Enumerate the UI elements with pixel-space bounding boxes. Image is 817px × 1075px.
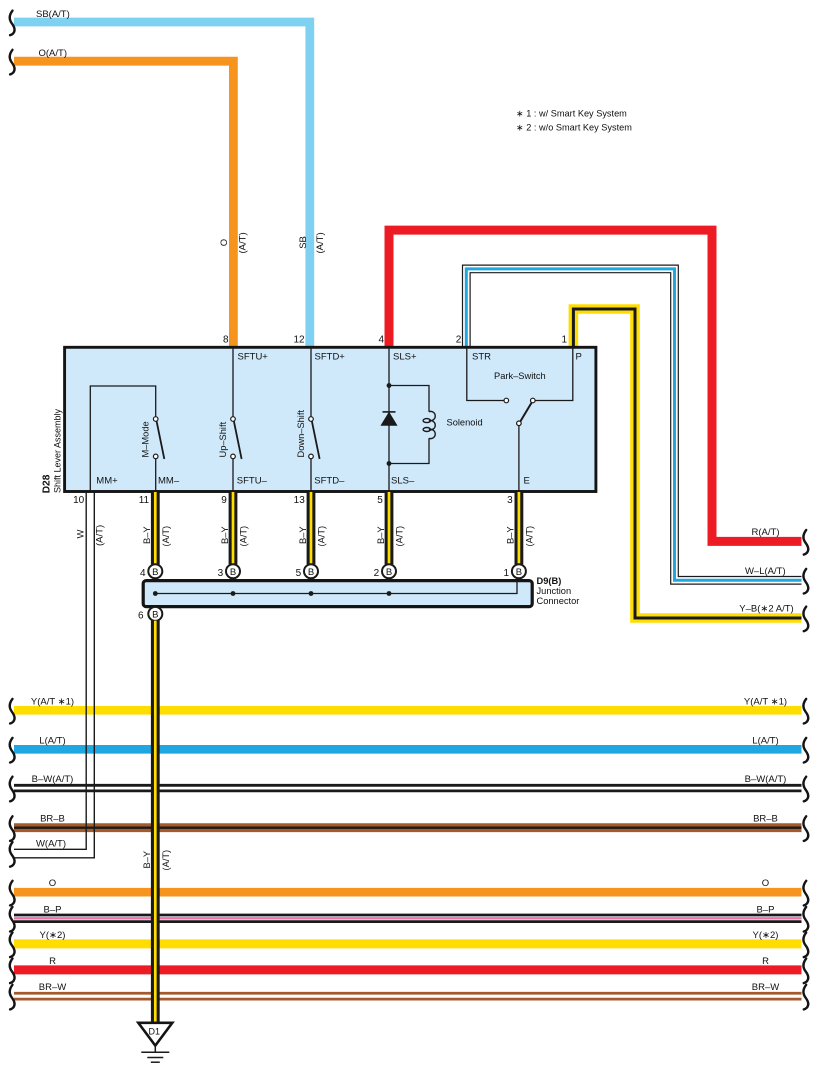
svg-text:D1: D1 [149,1027,161,1037]
junction terminal circled B 4 [148,564,162,578]
svg-text:O: O [762,878,769,889]
wire O(A/T) orange from left edge to pin 8 SFTU+ [14,61,233,346]
break symbol left of R [10,959,15,984]
svg-text:SFTD–: SFTD– [314,476,345,487]
svg-text:L(A/T): L(A/T) [752,735,778,746]
wire B-Y pin 5 outline [385,492,394,564]
break symbol left of Y(A/T *1) [10,699,15,724]
svg-text:3: 3 [218,568,224,579]
svg-text:W–L(A/T): W–L(A/T) [745,566,786,577]
switch Up-Shift arm [234,421,242,459]
break symbol left of Y(*2) [10,933,15,958]
junction terminal circled B 6 [148,607,162,621]
wire Y(*2) yellow (#ffdd00 9.0) [14,939,802,948]
solenoid coil L arc 2 [429,421,435,430]
wire P internal drop [535,347,573,401]
svg-text:∗ 1 : w/ Smart Key System: ∗ 1 : w/ Smart Key System [516,109,627,119]
svg-text:(A/T): (A/T) [161,850,171,871]
wire B-W(A/T) black-white (#ffffff 2.8) [14,787,802,790]
svg-text:B–Y: B–Y [142,851,152,869]
wire B-W(A/T) black-white (#1a1a1a 8.4) [14,784,802,792]
junction terminal circled B 5 [304,564,318,578]
svg-text:B: B [230,567,236,578]
svg-text:8: 8 [223,334,229,345]
ground bar 3 [151,1061,160,1063]
wire O orange (#f7941e 8.6) [14,888,802,897]
wire B-P black-pink (#f06eae 2.4) [14,917,802,919]
svg-text:SB: SB [298,236,309,249]
svg-text:B–Y: B–Y [376,526,386,544]
wire B-Y pin 5 yellow stripe [388,492,391,564]
svg-text:Solenoid: Solenoid [447,418,483,428]
break symbol right of Y(*2) [803,933,808,958]
wire BR-W brown-white (#a55a2c 8.6) [14,992,802,1001]
wire W-L(A/T) white-blue from pin 2 STR around to right edge (outline) [466,269,801,580]
wire B-Y pin 9 yellow stripe [232,492,235,564]
svg-text:6: 6 [138,610,144,621]
junction connector D9(B) box [143,581,532,607]
svg-text:B–Y: B–Y [142,526,152,544]
switch Up-Shift top contact [231,417,236,422]
svg-text:Park–Switch: Park–Switch [494,371,546,381]
junction bus dot at x=311.0 [309,591,314,596]
svg-text:Down–Shift: Down–Shift [296,410,306,458]
svg-text:2: 2 [374,568,380,579]
svg-text:R(A/T): R(A/T) [752,527,780,538]
shift lever assembly box D28 [65,347,596,491]
break symbol left end of W wire [10,842,15,867]
wire W from pin 10 outer line [14,492,86,849]
switch Park-Switch arm [520,403,532,422]
break symbol right end of W-L wire [803,569,808,594]
svg-text:(A/T): (A/T) [525,526,535,547]
break symbol right of O [803,881,808,906]
svg-text:13: 13 [294,495,306,506]
break symbol left of BR-W [10,985,15,1010]
solenoid coil L arc 1 [429,411,435,420]
svg-text:B–Y: B–Y [298,526,308,544]
break symbol left end of SB wire [10,11,15,36]
ground bar 1 [141,1051,169,1053]
wire W-L blue stripe [466,269,801,580]
switch M-Mode bottom contact [153,454,158,459]
wire B-Y pin 11 outline [151,492,160,564]
ground bar 2 [147,1057,163,1059]
wire W-L white core [466,269,801,580]
svg-text:1: 1 [504,568,510,579]
wire B-Y pin 9 outline [229,492,238,564]
node junction dot lower SLS [387,461,392,466]
svg-text:MM–: MM– [158,476,180,487]
wire Y-B(*2 A/T) yellow-black from pin 1 P around to right edge [573,309,801,618]
wire R red (#ed1c24 9.0) [14,965,802,974]
svg-text:Connector: Connector [537,596,580,606]
wire BR-W brown-white (#ffffff 3.2) [14,995,802,998]
svg-text:Y(A/T ∗1): Y(A/T ∗1) [744,696,787,707]
wire B-Y pin 11 yellow stripe [154,492,157,564]
junction terminal circled B 2 [382,564,396,578]
svg-text:SLS+: SLS+ [393,352,417,363]
break symbol right of B-W(A/T) [803,777,808,802]
switch Down-Shift bottom contact [309,454,314,459]
svg-text:D9(B): D9(B) [537,576,562,586]
svg-text:B–W(A/T): B–W(A/T) [745,774,787,785]
break symbol left of B-W(A/T) [10,777,15,802]
svg-text:B: B [152,567,158,578]
wire MM- below switch [155,459,157,492]
svg-text:5: 5 [377,495,383,506]
wire Y-B black stripe [573,309,801,618]
junction connector bus line [155,581,517,594]
svg-text:1: 1 [561,334,567,345]
svg-text:4: 4 [378,334,384,345]
wire SFTD- below switch [310,459,312,492]
svg-text:B: B [386,567,392,578]
svg-text:5: 5 [296,568,302,579]
junction bus dot at x=155.3 [153,591,158,596]
svg-text:D28: D28 [41,474,52,493]
svg-text:Y–B(∗2 A/T): Y–B(∗2 A/T) [739,604,793,615]
wire B-Y ground run yellow stripe [154,621,157,1022]
wire B-Y pin 13 outline [307,492,316,564]
wire B-Y pin 3 yellow stripe [518,492,521,564]
wire L(A/T) blue (#1ea7e1 8.6) [14,745,802,754]
break symbol left of B-P [10,907,15,932]
break symbol left of L(A/T) [10,738,15,763]
break symbol right of BR-W [803,985,808,1010]
svg-text:B–Y: B–Y [506,526,516,544]
svg-text:9: 9 [221,495,227,506]
svg-text:B–Y: B–Y [220,526,230,544]
switch Down-Shift top contact [309,417,314,422]
wire BR-B brown-black (#1a1a1a 2.4) [14,827,802,829]
solenoid coil L arc 3 [429,429,435,438]
svg-text:(A/T): (A/T) [161,526,171,547]
break symbol left of BR-B [10,816,15,841]
ground symbol D1 triangle [138,1023,172,1046]
svg-text:L(A/T): L(A/T) [39,735,65,746]
svg-text:∗ 2 : w/o Smart Key System: ∗ 2 : w/o Smart Key System [516,123,632,133]
wire W from pin 10 inner line [14,492,94,858]
svg-text:O(A/T): O(A/T) [39,48,68,59]
break symbol right of BR-B [803,816,808,841]
svg-text:(A/T): (A/T) [94,525,105,546]
svg-text:SLS–: SLS– [391,476,415,487]
svg-text:Junction: Junction [537,586,572,596]
wire B-P black-pink (#1a1a1a 9.4) [14,914,802,923]
junction terminal circled B 1 [512,564,526,578]
svg-text:BR–W: BR–W [752,982,779,993]
break symbol left end of O wire [10,50,15,75]
wire SB(A/T) sky-blue from left edge to pin 12 SFTD+ [14,22,310,346]
break symbol right of B-P [803,907,808,932]
svg-text:B–P: B–P [44,904,62,915]
wire MM+ internal riser and top rail [90,386,155,490]
diode D anode triangle [381,413,396,426]
junction bus dot at x=233.0 [231,591,236,596]
svg-text:Shift Lever Assembly: Shift Lever Assembly [52,408,62,493]
wire SFTU+ internal drop [232,347,234,417]
svg-text:W(A/T): W(A/T) [36,838,66,849]
svg-text:B–P: B–P [757,904,775,915]
svg-text:2: 2 [456,334,462,345]
wire B-Y pin 3 outline [515,492,524,564]
wire R(A/T) red from pin 4 SLS+ around to right edge [389,230,802,541]
switch M-Mode arm [157,421,165,459]
node junction dot upper SLS [387,383,392,388]
solenoid coil L loop 2 [423,428,430,432]
svg-text:B–W(A/T): B–W(A/T) [32,774,74,785]
svg-text:BR–W: BR–W [39,982,66,993]
break symbol right of Y(A/T *1) [803,699,808,724]
wire B-Y ground run outline [151,621,160,1022]
svg-text:BR–B: BR–B [40,814,65,825]
ground stem [154,1046,156,1053]
svg-text:(A/T): (A/T) [395,526,405,547]
wire Y(A/T *1) yellow (#ffdd00 8.6) [14,706,802,715]
break symbol right of R [803,959,808,984]
svg-text:(A/T): (A/T) [237,232,248,253]
svg-text:12: 12 [293,334,305,345]
svg-text:P: P [576,352,582,363]
svg-text:B: B [516,567,522,578]
break symbol left of O [10,881,15,906]
switch Park-Switch fixed contact [504,398,509,403]
svg-text:Up–Shift: Up–Shift [218,421,228,457]
junction terminal circled B 3 [226,564,240,578]
svg-text:O: O [49,878,56,889]
break symbol right end of Y-B wire [803,607,808,632]
switch Park-Switch moving contact [531,398,536,403]
svg-text:M–Mode: M–Mode [141,421,151,457]
svg-text:SFTU+: SFTU+ [238,352,269,363]
wire SFTD+ internal drop [310,347,312,417]
svg-text:R: R [49,956,56,967]
break symbol right end of R wire [803,530,808,555]
switch Park-Switch pivot contact [517,421,522,426]
wire E internal drop [518,426,520,492]
svg-text:SB(A/T): SB(A/T) [36,9,70,20]
svg-text:BR–B: BR–B [753,814,778,825]
svg-text:STR: STR [472,352,491,363]
svg-text:W: W [76,530,87,539]
svg-text:(A/T): (A/T) [317,526,327,547]
break symbol right of L(A/T) [803,738,808,763]
wire solenoid branch [389,386,429,464]
svg-text:Y(A/T ∗1): Y(A/T ∗1) [31,696,74,707]
svg-text:R: R [762,956,769,967]
svg-text:4: 4 [140,568,146,579]
svg-text:SFTD+: SFTD+ [315,352,346,363]
svg-text:(A/T): (A/T) [239,526,249,547]
wire BR-B brown-black (#a55a2c 8.8) [14,823,802,832]
svg-text:11: 11 [139,495,150,506]
wire STR internal drop [467,347,504,401]
wire B-Y pin 13 yellow stripe [310,492,313,564]
svg-text:(A/T): (A/T) [315,232,326,253]
solenoid coil L loop 1 [423,419,430,423]
svg-text:10: 10 [73,495,85,506]
switch Down-Shift arm [312,421,320,459]
svg-text:3: 3 [507,495,513,506]
svg-text:MM+: MM+ [96,476,118,487]
switch Up-Shift bottom contact [231,454,236,459]
svg-text:O: O [219,239,230,246]
svg-text:SFTU–: SFTU– [237,476,268,487]
svg-text:Y(∗2): Y(∗2) [40,930,66,941]
svg-text:B: B [308,567,314,578]
svg-text:B: B [152,610,158,621]
wire B-P black-pink (#ffffff 3.9) [14,916,802,920]
svg-text:Y(∗2): Y(∗2) [753,930,779,941]
wire SFTU- below switch [232,459,234,492]
wire SLS+ to SLS- internal line [388,347,390,492]
switch M-Mode top contact [153,417,158,422]
diode D cathode bar [383,411,396,413]
svg-text:E: E [524,476,530,487]
junction bus dot at x=389.0 [387,591,392,596]
